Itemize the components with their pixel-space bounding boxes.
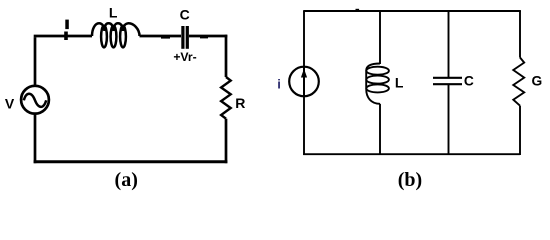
- svg-text:R: R: [235, 95, 245, 111]
- svg-text:i: i: [277, 76, 281, 91]
- wire top (b): [303, 10, 521, 12]
- svg-text:C: C: [180, 6, 190, 22]
- resistor R: [221, 77, 231, 119]
- wire inductor branch lower: [379, 104, 381, 155]
- wire right vertical upper: [225, 35, 228, 77]
- wire G branch lower: [519, 106, 521, 155]
- svg-text:C: C: [464, 73, 474, 88]
- wire bottom (b): [303, 153, 520, 155]
- wire left vertical lower: [34, 113, 37, 163]
- current source i: [289, 66, 319, 97]
- svg-text:G: G: [532, 74, 543, 89]
- resistor G: [513, 58, 524, 106]
- current label I: [65, 20, 69, 30]
- junction tick on top wire: [356, 9, 360, 11]
- svg-text:(b): (b): [398, 169, 422, 191]
- arrowhead of source: [301, 69, 307, 78]
- inductor L (b): [366, 64, 389, 104]
- svg-text:+Vr-: +Vr-: [173, 50, 196, 64]
- svg-text:L: L: [395, 75, 404, 91]
- wire capacitor branch lower: [448, 84, 450, 155]
- wire top left segment: [34, 35, 92, 38]
- wire G branch upper: [519, 11, 521, 58]
- wire between L and C: [140, 35, 182, 38]
- wire left vertical (b) lower: [303, 97, 305, 155]
- voltage source V: [21, 86, 49, 114]
- capacitor C (b): [433, 78, 462, 84]
- wire bottom (a): [34, 160, 228, 163]
- wire inductor branch upper: [379, 11, 381, 64]
- svg-text:L: L: [109, 5, 118, 21]
- capacitor C (a): [183, 26, 187, 49]
- stray dash under wire: [161, 36, 170, 38]
- svg-text:V: V: [5, 96, 15, 112]
- stray dash under wire right of C: [200, 36, 208, 38]
- wire left vertical upper: [34, 37, 37, 86]
- current tick mark on wire: [64, 32, 68, 41]
- inductor L (a): [92, 23, 140, 47]
- svg-text:(a): (a): [115, 169, 138, 191]
- wire capacitor branch upper: [448, 11, 450, 78]
- wire C to right corner: [189, 35, 227, 38]
- wire right vertical lower: [225, 119, 228, 164]
- wire left vertical (b) upper: [303, 11, 305, 66]
